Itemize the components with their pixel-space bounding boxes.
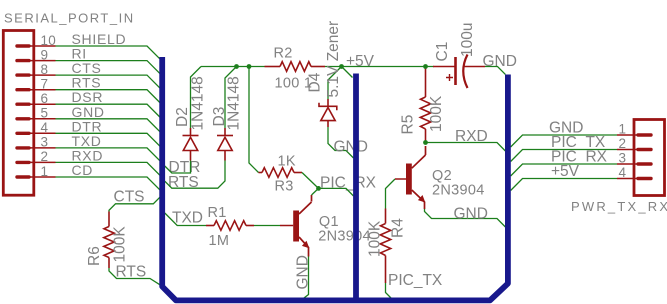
- wire +5V bus entry: [342, 67, 353, 78]
- pin 4 DTR: [17, 118, 102, 135]
- wire CTS to bus: [56, 75, 160, 88]
- junction dot +5V: [339, 64, 344, 69]
- svg-text:DSR: DSR: [72, 89, 104, 105]
- wire DSR to bus: [56, 104, 160, 117]
- zener diode D4: [319, 99, 337, 127]
- svg-text:R4: R4: [390, 218, 407, 238]
- wire Q1 collector to node: [312, 188, 319, 195]
- svg-text:1M: 1M: [209, 233, 230, 249]
- svg-text:1: 1: [41, 164, 49, 179]
- wire GND row: [511, 135, 617, 147]
- wire RI to bus: [56, 61, 160, 74]
- wire TXD from bus to R1: [165, 213, 206, 226]
- diode D3: [217, 128, 233, 161]
- pin 8 CTS: [17, 60, 102, 77]
- svg-text:8: 8: [41, 62, 49, 77]
- svg-text:5.1V Zener: 5.1V Zener: [325, 21, 342, 98]
- svg-text:1N4148: 1N4148: [226, 76, 243, 130]
- svg-text:+5V: +5V: [551, 163, 580, 180]
- svg-text:5: 5: [41, 106, 49, 121]
- junction dot R3 feed: [247, 64, 252, 69]
- pin 7 RTS: [17, 75, 101, 92]
- pin 10 SHIELD: [17, 31, 126, 48]
- pin 3 PIC_RX: [617, 151, 651, 166]
- svg-text:RXD: RXD: [72, 147, 104, 163]
- svg-text:3: 3: [41, 135, 49, 150]
- svg-text:4: 4: [619, 165, 627, 180]
- svg-text:7: 7: [41, 77, 49, 92]
- pin 6 DSR: [17, 89, 103, 106]
- svg-text:6: 6: [41, 91, 49, 106]
- svg-text:2N3904: 2N3904: [318, 229, 371, 245]
- pin 4 +5V: [617, 165, 651, 180]
- wire PIC_RX row: [511, 164, 617, 176]
- pin 2 RXD: [17, 147, 103, 164]
- wire +5V row: [511, 179, 617, 191]
- pin 2 PIC_TX: [617, 136, 651, 151]
- wire CTS from bus to R6: [109, 197, 160, 211]
- wire RXD to bus: [56, 162, 160, 175]
- pin 3 TXD: [17, 133, 102, 150]
- wire C1 to bus3 top: [485, 67, 505, 75]
- pin 1 CD: [17, 162, 93, 179]
- junction dot R5 top: [423, 64, 428, 69]
- svg-text:1K: 1K: [278, 153, 296, 169]
- svg-text:R2: R2: [274, 46, 293, 62]
- svg-text:CD: CD: [72, 162, 94, 178]
- wire R3 to PIC_RX node: [302, 173, 319, 189]
- junction dot D3/rail: [234, 64, 239, 69]
- connector J1 body: [3, 31, 34, 196]
- svg-text:1N4148: 1N4148: [190, 76, 207, 130]
- svg-text:2N3904: 2N3904: [432, 183, 485, 199]
- svg-text:SHIELD: SHIELD: [72, 31, 127, 47]
- resistor R3: [259, 168, 303, 178]
- svg-text:+5V: +5V: [346, 53, 375, 70]
- wire R4 to bottom bus PIC_TX: [386, 283, 392, 299]
- wire GND to bus: [56, 119, 160, 132]
- junction dot RXD: [423, 140, 428, 145]
- transistor Q2: [395, 146, 426, 209]
- svg-text:100K: 100K: [367, 220, 384, 257]
- wire DTR to bus: [56, 133, 160, 146]
- svg-text:100K: 100K: [428, 95, 445, 132]
- wire TXD to bus: [56, 148, 160, 161]
- pin 1 GND: [617, 122, 651, 137]
- svg-text:DTR: DTR: [72, 118, 103, 134]
- pin 9 RI: [17, 46, 87, 63]
- wire R2 to +5V node: [325, 66, 342, 68]
- wire +5V rail right of bus2: [342, 66, 435, 68]
- svg-text:GND: GND: [454, 206, 488, 223]
- svg-text:100u: 100u: [459, 23, 476, 57]
- svg-text:4: 4: [41, 120, 49, 135]
- svg-text:CTS: CTS: [114, 189, 145, 206]
- svg-text:10: 10: [41, 33, 57, 48]
- resistor R6: [104, 212, 114, 269]
- wire PIC_RX to bus: [319, 188, 354, 196]
- wire D2 top to +5V rail: [191, 67, 202, 129]
- wire RTS from R6 to bus: [109, 268, 160, 285]
- wire RTS to bus: [56, 90, 160, 103]
- wire +5V rail horizontal: [201, 66, 265, 68]
- svg-text:C1: C1: [434, 42, 451, 62]
- wire Q2 emitter to GND: [425, 209, 506, 227]
- wire Q1 emitter to GND: [300, 257, 309, 302]
- pin 5 GND: [17, 104, 105, 121]
- wire D3 top to +5V rail: [225, 67, 237, 129]
- svg-text:SERIAL_PORT_IN: SERIAL_PORT_IN: [4, 11, 135, 26]
- resistor R4: [380, 209, 390, 284]
- transistor Q1: [280, 195, 312, 257]
- wire R3 feed vertical: [249, 67, 259, 173]
- svg-text:R5: R5: [400, 115, 417, 135]
- wire SHIELD to bus: [56, 46, 160, 59]
- connector J2 PWR_TX_RX body: [634, 120, 665, 196]
- wire PIC_TX row: [511, 150, 617, 162]
- svg-text:R1: R1: [208, 205, 227, 221]
- svg-text:PWR_TX_RX: PWR_TX_RX: [571, 199, 667, 214]
- svg-text:9: 9: [41, 47, 49, 62]
- wire CD to bus: [56, 177, 160, 190]
- svg-text:3: 3: [619, 151, 627, 166]
- wire DTR from bus to D2: [165, 161, 191, 174]
- svg-text:GND: GND: [334, 138, 368, 155]
- svg-text:2: 2: [41, 149, 49, 164]
- wire RXD to bus: [426, 143, 506, 152]
- resistor R1: [206, 221, 254, 231]
- svg-text:D4: D4: [307, 72, 324, 92]
- bus B1 left vertical + bottom bus + bus B3 right vertical: [162, 57, 508, 300]
- svg-text:GND: GND: [295, 255, 312, 289]
- capacitor C1: [433, 55, 485, 89]
- resistor R2: [265, 62, 326, 72]
- svg-text:CTS: CTS: [72, 60, 102, 76]
- svg-text:TXD: TXD: [172, 210, 203, 227]
- svg-text:PIC_TX: PIC_TX: [388, 272, 443, 289]
- svg-text:1: 1: [619, 122, 627, 137]
- wire zener to GND bus entry: [328, 127, 354, 158]
- svg-text:2: 2: [619, 136, 627, 151]
- svg-text:R3: R3: [275, 179, 294, 195]
- wire +5V to zener: [328, 67, 342, 100]
- wire RTS from bus to D3: [165, 161, 225, 189]
- diode D2: [183, 128, 199, 161]
- svg-text:GND: GND: [483, 53, 517, 70]
- wire R1 to Q1 base: [254, 225, 280, 227]
- wire Q2 base to R4: [386, 179, 396, 209]
- svg-text:R6: R6: [86, 246, 103, 266]
- junction dot PIC_RX: [316, 186, 321, 191]
- bus B2 middle vertical: [353, 74, 359, 301]
- svg-text:100K: 100K: [112, 226, 129, 263]
- svg-text:D2: D2: [174, 107, 191, 127]
- resistor R5: [420, 67, 430, 143]
